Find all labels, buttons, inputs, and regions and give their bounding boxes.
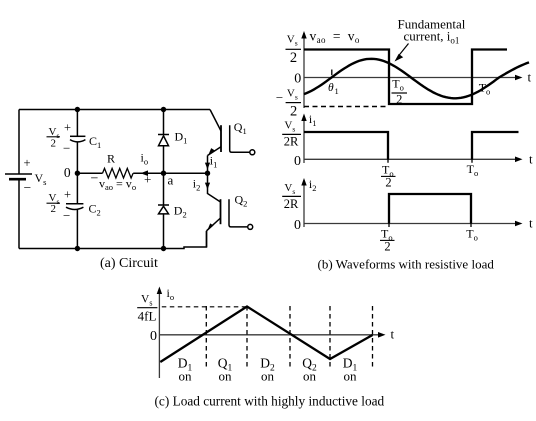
svg-text:(a) Circuit: (a) Circuit [100,256,158,271]
svg-text:2R: 2R [284,197,299,211]
svg-text:0: 0 [294,154,301,169]
svg-text:t: t [528,70,532,85]
svg-text:on: on [179,369,193,384]
svg-text:0: 0 [294,72,301,87]
svg-text:0: 0 [64,165,71,180]
svg-text:+: + [64,121,71,135]
svg-text:1: 1 [335,86,339,96]
svg-text:θ: θ [328,82,334,94]
svg-text:+: + [64,188,71,202]
svg-text:0: 0 [294,218,301,233]
svg-text:(b) Waveforms with resistive l: (b) Waveforms with resistive load [318,257,495,272]
svg-text:on: on [261,369,275,384]
svg-text:−: − [276,90,283,105]
svg-text:a: a [168,173,174,188]
svg-text:2R: 2R [284,135,299,149]
svg-text:on: on [344,369,358,384]
svg-text:−: − [91,172,99,187]
svg-text:2: 2 [385,176,391,190]
svg-text:2: 2 [396,92,402,106]
svg-text:(c) Load current with highly i: (c) Load current with highly inductive l… [155,394,385,409]
svg-text:2: 2 [290,104,297,120]
svg-text:2: 2 [290,50,297,66]
svg-text:−: − [63,208,70,223]
svg-text:2: 2 [51,137,57,149]
svg-text:on: on [303,369,317,384]
svg-text:−: − [63,141,70,156]
svg-text:t: t [391,327,395,342]
svg-text:t: t [529,152,533,167]
svg-text:2: 2 [51,203,57,215]
svg-text:vao = vo: vao = vo [99,177,136,193]
svg-text:+: + [24,156,31,170]
svg-text:2: 2 [384,240,390,254]
svg-text:+: + [144,172,151,187]
svg-text:t: t [529,216,533,231]
svg-text:0: 0 [150,329,157,344]
svg-text:on: on [219,369,233,384]
svg-text:R: R [107,152,115,166]
svg-text:4fL: 4fL [138,308,157,323]
svg-text:−: − [24,180,32,195]
